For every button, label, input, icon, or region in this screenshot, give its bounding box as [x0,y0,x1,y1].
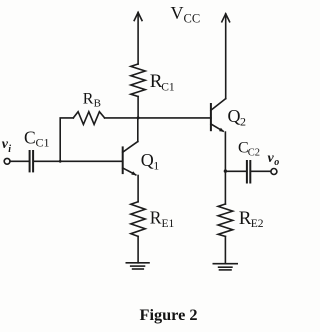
wire: RB left lead and vertical drop to input node [60,118,73,161]
wire: Q2 collector to VCC [225,14,227,99]
caption Figure 2 [140,305,198,324]
svg-text:i: i [8,144,11,155]
svg-text:o: o [274,157,279,168]
node A junction dot [137,116,140,119]
svg-text:V: V [171,3,184,23]
svg-text:1: 1 [153,159,159,173]
wire: node A down to Q1 collector [137,118,139,142]
svg-text:B: B [94,98,101,110]
label CC1 [24,128,50,150]
svg-text:C: C [24,128,36,148]
VCC supply arrow (left branch) [134,13,142,21]
wire: Q1 emitter to RE1 [137,176,139,202]
svg-text:Q: Q [141,150,154,170]
input terminal vi [4,158,10,164]
svg-text:E2: E2 [251,218,264,230]
label RB [83,90,101,109]
wire: RC1 bottom to node A [137,97,139,118]
resistor RE1 [131,202,145,237]
resistor RC1 [131,64,145,97]
resistor RE2 [218,204,233,236]
svg-text:C2: C2 [248,147,260,158]
label VCC [171,3,201,26]
svg-text:E1: E1 [162,218,175,230]
capacitor CC2 [247,161,250,183]
wire: RE2 to ground [224,236,226,263]
VCC supply arrow (right branch) [222,14,230,22]
wire: node A to Q2 base [138,117,211,119]
svg-text:R: R [83,90,94,107]
wire: output node to CC2 [225,170,246,172]
wire: vi terminal to CC1 [10,160,29,162]
svg-text:R: R [150,207,162,227]
label vo [268,151,280,168]
wire: output node to RE2 [224,171,226,204]
wire: RE1 to ground [137,236,139,262]
transistor Q2 [211,99,226,132]
label RE1 [150,207,175,230]
svg-text:C1: C1 [161,82,175,94]
label Q2 [228,106,247,129]
label CC2 [238,139,260,158]
wire: VCC arrow to RC1 top [137,13,139,65]
label vi [2,137,12,155]
output terminal vo [271,169,277,175]
svg-text:2: 2 [240,114,246,128]
svg-text:C1: C1 [36,135,50,149]
wire: CC1 to Q1 base [34,160,123,162]
wire: CC2 to vo terminal [251,170,270,172]
transistor Q1 [123,142,138,176]
label Q1 [141,150,160,173]
input node junction dot [59,160,62,163]
wire: RB right lead to node A [105,117,139,119]
label RE2 [239,208,264,230]
capacitor CC1 [30,151,33,171]
ground (under RE1) [126,263,149,269]
label RC1 [150,71,175,94]
ground (under RE2) [213,264,237,270]
svg-text:Q: Q [228,106,241,126]
svg-text:CC: CC [184,12,201,26]
wire: Q2 emitter to output node [224,132,226,171]
svg-text:Figure 2: Figure 2 [140,305,198,324]
output node junction dot [224,169,227,172]
resistor RB [73,112,104,125]
